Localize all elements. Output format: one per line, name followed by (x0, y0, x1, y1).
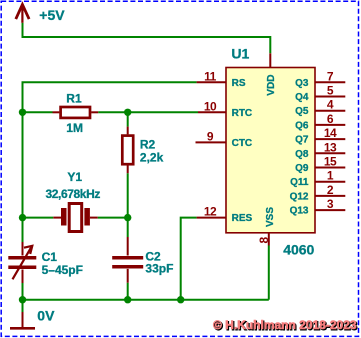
junction node Y1 left / C1 (19, 214, 26, 221)
pin 6 Q6 stub (315, 124, 345, 126)
svg-text:VDD: VDD (266, 75, 277, 96)
pin 3 Q13 stub (315, 209, 345, 211)
pin 2 Q12 stub (315, 195, 345, 197)
svg-text:RTC: RTC (232, 108, 253, 119)
junction node R1/R2/RTC (124, 109, 131, 116)
svg-text:R1: R1 (66, 91, 82, 105)
junction node R1/left rail (19, 109, 26, 116)
svg-text:12: 12 (204, 205, 217, 219)
svg-text:1M: 1M (66, 121, 83, 135)
svg-text:8: 8 (257, 237, 271, 244)
junction node C1 / ground rail (19, 296, 26, 303)
svg-text:Q13: Q13 (290, 206, 309, 217)
svg-text:Q11: Q11 (290, 177, 309, 188)
IC U1 4060 body (226, 68, 315, 233)
svg-text:33pF: 33pF (145, 262, 173, 276)
wire C2 bottom (127, 283, 129, 300)
svg-text:15: 15 (324, 155, 337, 169)
wire R1 right to RTC pin 10 (98, 111, 198, 113)
pin 5 Q4 stub (315, 96, 345, 98)
svg-text:Y1: Y1 (67, 170, 82, 184)
svg-text:5: 5 (327, 84, 334, 98)
svg-text:RES: RES (232, 213, 253, 224)
svg-text:13: 13 (324, 140, 337, 154)
pin 1 Q11 stub (315, 181, 345, 183)
svg-text:VSS: VSS (265, 207, 276, 227)
pin 11 RS stub (197, 81, 226, 83)
svg-text:2: 2 (327, 183, 334, 197)
svg-text:6: 6 (327, 112, 334, 126)
wire crystal left (23, 217, 54, 219)
wire C1 bottom (22, 283, 24, 300)
wire R1 left (23, 111, 53, 113)
svg-text:Q5: Q5 (295, 106, 309, 117)
pin 13 Q8 stub (315, 152, 345, 154)
svg-text:Q3: Q3 (295, 78, 309, 89)
svg-text:5–45pF: 5–45pF (42, 263, 83, 277)
wire to ground symbol (22, 300, 24, 312)
svg-text:14: 14 (324, 126, 337, 140)
svg-text:3: 3 (327, 197, 334, 211)
pin 7 Q3 stub (315, 81, 345, 83)
svg-text:C1: C1 (42, 250, 58, 264)
resistor R2 (122, 127, 133, 174)
pin 9 CTC stub (196, 141, 227, 143)
svg-text:Q4: Q4 (295, 92, 309, 103)
svg-text:RS: RS (232, 78, 246, 89)
pin 4 Q5 stub (315, 110, 345, 112)
junction node RES / ground rail (177, 296, 184, 303)
pin 10 RTC stub (198, 111, 226, 113)
trimmer capacitor C1 (8, 242, 36, 283)
svg-text:Q8: Q8 (295, 149, 309, 160)
wire VSS pin 8 up (268, 246, 270, 300)
pin 12 RES stub (197, 217, 226, 219)
pin 15 Q9 stub (315, 167, 345, 169)
svg-text:32,678kHz: 32,678kHz (46, 187, 101, 201)
svg-text:9: 9 (207, 129, 214, 143)
svg-text:4: 4 (327, 98, 334, 112)
wire ground rail (23, 299, 269, 301)
crystal Y1 (53, 204, 97, 232)
junction node Y1 right / R2 / C2 (124, 214, 131, 221)
pin 16 VDD stub (269, 53, 271, 67)
svg-text:Q12: Q12 (290, 191, 309, 202)
wire +5V vertical and top rail to VDD (23, 23, 271, 54)
svg-text:Q9: Q9 (295, 163, 309, 174)
resistor R1 (53, 107, 99, 118)
wire RES pin 12 to ground rail (181, 218, 197, 300)
wire C1 top (22, 218, 24, 242)
svg-text:11: 11 (204, 69, 217, 83)
+5V power symbol arrow (16, 5, 29, 23)
svg-text:+5V: +5V (39, 7, 65, 23)
wire left rail vertical (22, 112, 24, 217)
svg-text:7: 7 (327, 69, 334, 83)
svg-text:10: 10 (204, 99, 217, 113)
pin 14 Q7 stub (315, 138, 345, 140)
svg-text:0V: 0V (37, 307, 55, 323)
capacitor C2 (112, 237, 143, 283)
wire R2 bottom (127, 173, 129, 217)
svg-text:4060: 4060 (283, 241, 314, 257)
junction node C2 / ground rail (124, 296, 131, 303)
wire RS branch: horizontal to pin 11 and down left rail (23, 82, 197, 112)
svg-text:© H.Kuhlmann 2018-2023: © H.Kuhlmann 2018-2023 (213, 318, 357, 332)
svg-text:1: 1 (327, 169, 334, 183)
svg-text:CTC: CTC (232, 138, 253, 149)
wire C2 top (127, 218, 129, 237)
wire crystal right (98, 217, 128, 219)
svg-text:U1: U1 (231, 45, 249, 61)
svg-text:Q6: Q6 (295, 120, 309, 131)
svg-text:2,2k: 2,2k (140, 150, 164, 164)
svg-text:Q7: Q7 (295, 135, 309, 146)
wire R2 top (127, 112, 129, 126)
ground 0V symbol (10, 312, 35, 328)
pin 8 VSS stub (268, 233, 270, 246)
